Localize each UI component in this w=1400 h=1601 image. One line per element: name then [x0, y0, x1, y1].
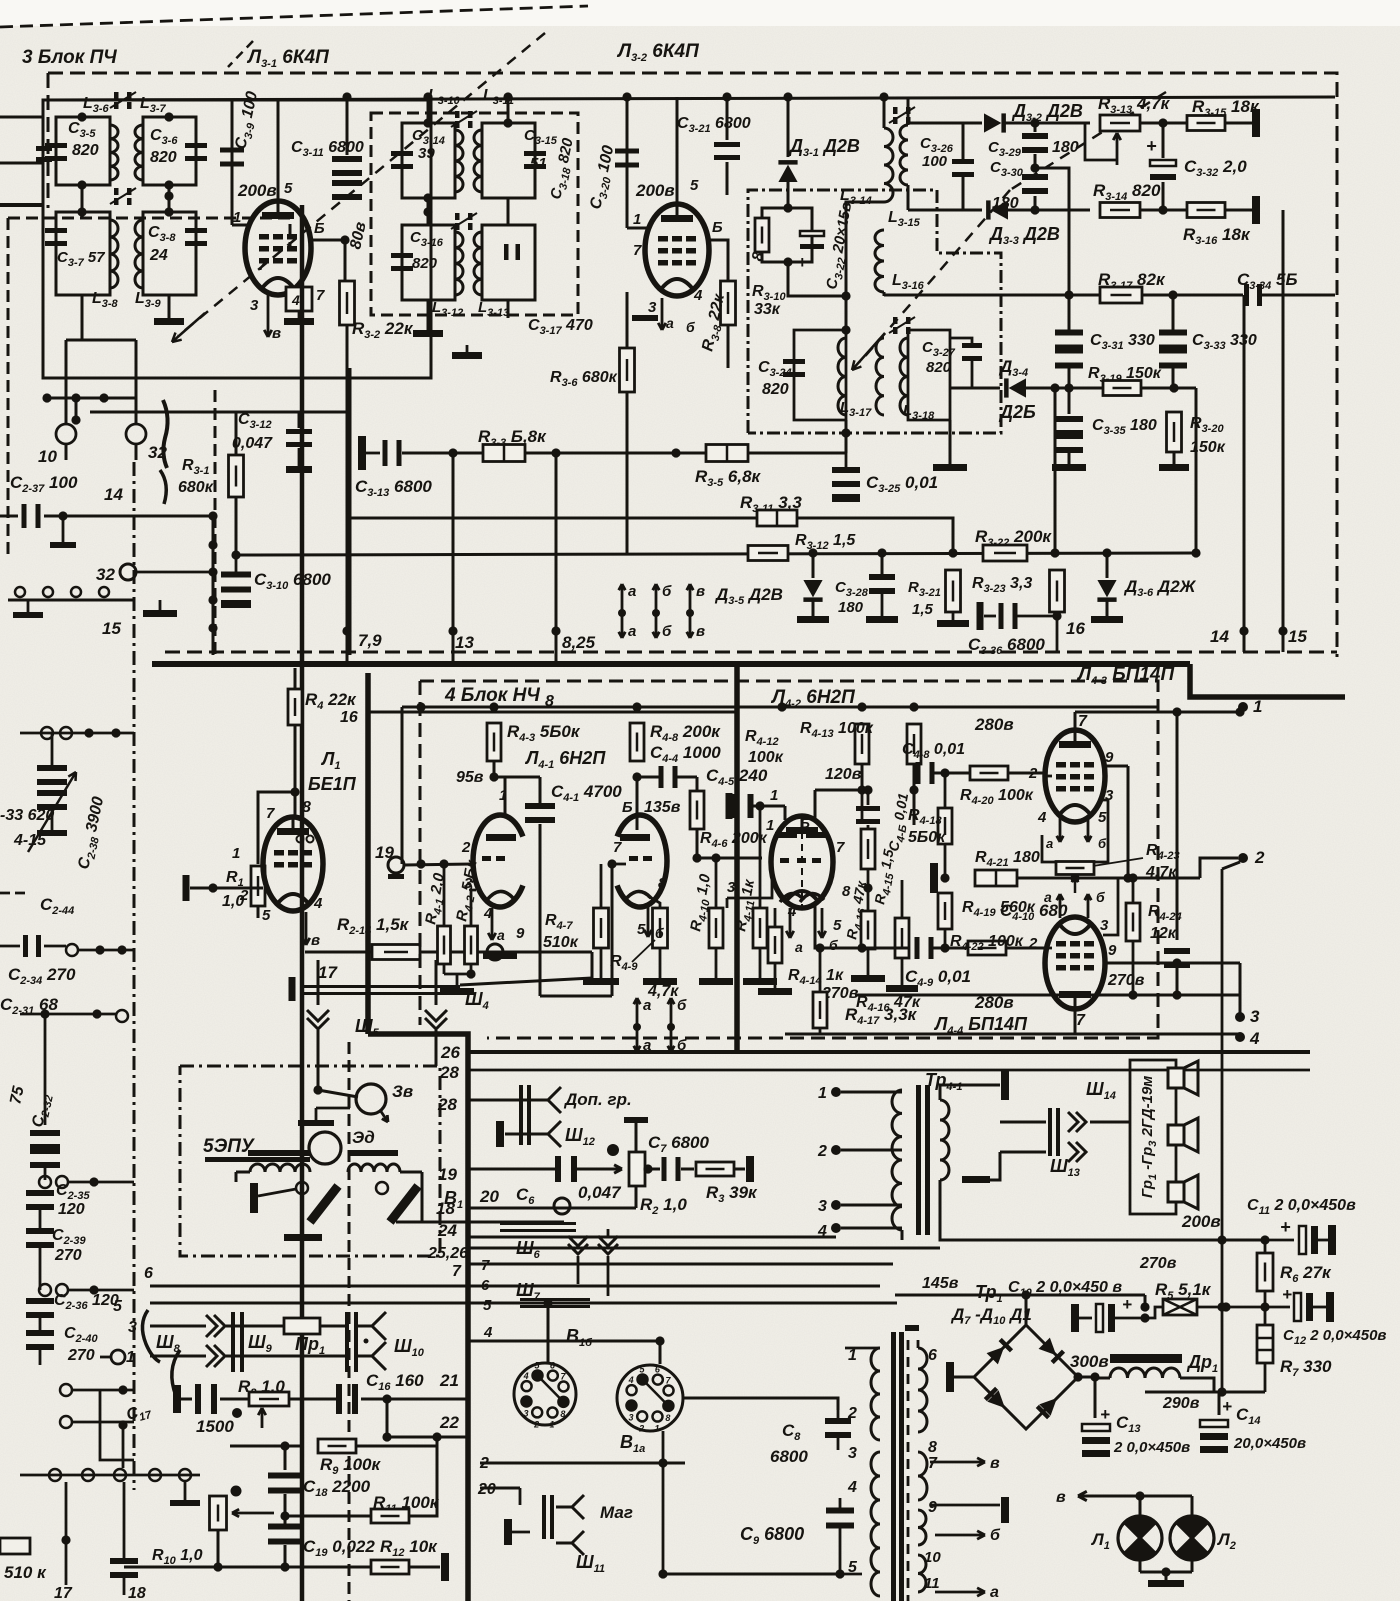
capacitor C2-39 270 [26, 1228, 54, 1234]
bridge right output [1073, 1372, 1082, 1381]
svg-text:а: а [643, 997, 651, 1014]
wire between box2 tanks [427, 198, 430, 225]
svg-text:Д3-5 Д2В: Д3-5 Д2В [714, 585, 783, 607]
svg-text:+: + [1122, 1295, 1132, 1314]
svg-text:3: 3 [648, 299, 657, 316]
svg-text:2: 2 [817, 1143, 827, 1160]
heavy enclosure preamp left vertical [365, 673, 371, 1034]
svg-text:25,26: 25,26 [427, 1245, 468, 1262]
svg-text:4: 4 [693, 287, 703, 304]
resistor R4-24 12k [1126, 903, 1140, 941]
resistor R9 100k [318, 1439, 356, 1453]
5EPU dash-dot enclosure [180, 1066, 440, 1256]
tank circuit C3-7 / L3-8 [56, 212, 110, 295]
bridge left terminal [946, 1362, 954, 1392]
transformer Tr4-1 primary [892, 1090, 902, 1230]
resistors R4-16 47k pair [861, 829, 875, 869]
connector Mag [542, 1495, 546, 1539]
svg-text:б: б [990, 1527, 1001, 1544]
svg-text:1: 1 [848, 1347, 857, 1364]
svg-text:820: 820 [150, 149, 177, 166]
speaker 2 [1168, 1125, 1184, 1145]
svg-text:4: 4 [291, 292, 300, 308]
svg-text:5: 5 [284, 180, 293, 197]
heavy elbow to bottom assembly [368, 1034, 468, 1601]
grid return left of L4-2 [727, 880, 772, 898]
block4 supply rail [402, 706, 1158, 709]
wire R4-12 R4-13 to rail [857, 785, 866, 794]
svg-text:10: 10 [924, 1549, 941, 1566]
Tr1 winding 10 11 [918, 1555, 926, 1592]
svg-text:в: в [696, 583, 705, 600]
wire lamps top [1130, 1495, 1192, 1498]
volume pot R2 1.0 [574, 1168, 622, 1171]
svg-text:3: 3 [727, 879, 736, 896]
tube L4-4 6P14P inverted [1045, 917, 1105, 1009]
svg-text:820: 820 [762, 381, 789, 398]
svg-text:51: 51 [530, 155, 547, 172]
svg-text:1: 1 [818, 1085, 827, 1102]
tube L3-2 6K4P [645, 204, 709, 296]
diode D3-3 D2V [908, 209, 982, 212]
svg-text:С4-10 680: С4-10 680 [1000, 901, 1068, 923]
wire top rail of block 3 [43, 97, 1335, 100]
wire dashed pointer to L3-1 coils [178, 33, 545, 336]
ground under box2 left [427, 300, 430, 330]
svg-text:9: 9 [516, 925, 525, 942]
svg-text:33к: 33к [754, 301, 781, 318]
tank circuit C3-8 / L3-9 [143, 212, 196, 295]
svg-text:+: + [1146, 136, 1157, 156]
svg-text:200в: 200в [635, 181, 675, 200]
terminal 10 [56, 424, 76, 444]
svg-text:3: 3 [1250, 1007, 1260, 1026]
svg-text:С7 6800: С7 6800 [648, 1133, 710, 1155]
capacitor C3-35 180 [1068, 388, 1071, 414]
left dashed vertical x349 [348, 1042, 351, 1601]
svg-text:R3 39к: R3 39к [706, 1183, 758, 1205]
svg-text:Зв: Зв [392, 1082, 413, 1101]
connector Dop.gr [519, 1085, 523, 1145]
transformer Tr4-1 secondary [940, 1100, 949, 1180]
svg-text:120: 120 [58, 1201, 85, 1218]
capacitor C18 2200 [284, 1446, 287, 1470]
terminal 15 [1282, 210, 1285, 652]
svg-text:1: 1 [232, 845, 240, 862]
svg-text:10: 10 [38, 447, 57, 466]
tube L4-3 6P14P [1045, 730, 1105, 822]
resistor R4-13 100k [907, 724, 921, 764]
inner dashed detector box [748, 190, 1001, 433]
capacitor C3-25 0.01 [845, 433, 848, 467]
svg-text:5ЭПУ: 5ЭПУ [203, 1136, 256, 1157]
bridge diode 1 [987, 1338, 1014, 1365]
svg-text:Доп. гр.: Доп. гр. [563, 1090, 632, 1109]
capacitor C14 [1218, 1392, 1221, 1415]
svg-text:+: + [1282, 1285, 1292, 1304]
switch V1 terminal bar [250, 1183, 258, 1213]
svg-text:Д3-6 Д2Ж: Д3-6 Д2Ж [1123, 577, 1197, 599]
capacitor C3-20 100 [626, 97, 629, 228]
svg-text:7: 7 [1076, 1012, 1086, 1029]
svg-text:б: б [1098, 836, 1107, 851]
svg-text:200в: 200в [1181, 1212, 1221, 1231]
cathode ground of first half [483, 952, 517, 959]
switch V1 blades [310, 1186, 338, 1222]
svg-text:С3-36 6800: С3-36 6800 [968, 635, 1045, 657]
svg-text:11: 11 [924, 1575, 940, 1592]
svg-text:в: в [272, 325, 281, 342]
svg-text:С3-10 6800: С3-10 6800 [254, 570, 331, 592]
cathode lead L4-1b [648, 896, 660, 908]
L4-4 pin9 wire [1103, 962, 1240, 965]
plate wires L4-2 [815, 789, 862, 792]
svg-text:6: 6 [928, 1347, 937, 1364]
svg-text:7: 7 [452, 1263, 462, 1280]
svg-text:280в: 280в [974, 715, 1014, 734]
left dashed vertical x215 [214, 390, 217, 655]
svg-text:820: 820 [412, 255, 438, 272]
svg-text:32: 32 [96, 565, 115, 584]
capacitor C3-9 100 [231, 100, 234, 225]
ground under pin4 box [298, 311, 301, 318]
capacitor C8 [825, 1418, 851, 1424]
svg-text:Л4-4 БП14П: Л4-4 БП14П [933, 1014, 1028, 1037]
Tr1 primary winding lower [871, 1452, 880, 1596]
wire from detector loop to lower tank [788, 262, 846, 296]
svg-text:270в: 270в [1107, 972, 1145, 989]
svg-text:R4-3 5Б0к: R4-3 5Б0к [507, 722, 581, 744]
svg-text:R2 1,0: R2 1,0 [640, 1195, 687, 1217]
diode D3-4 D2B [950, 387, 1000, 390]
svg-text:4: 4 [787, 903, 797, 920]
svg-text:+: + [797, 253, 807, 272]
svg-text:а: а [628, 623, 636, 640]
resistor R6 27k [1257, 1253, 1273, 1291]
svg-text:4: 4 [523, 1371, 529, 1381]
svg-text:7: 7 [258, 257, 267, 274]
wire dashed pointer to L3-2 coils [1010, 92, 1166, 190]
svg-text:а: а [795, 939, 803, 955]
resistor R4-8 200k [630, 723, 644, 761]
svg-text:14: 14 [104, 485, 123, 504]
wire FM det line y295 [884, 294, 1243, 297]
fuse Pr1 [284, 1318, 320, 1334]
svg-text:R3-5 6,8к: R3-5 6,8к [695, 467, 762, 489]
resistor R3-20 150k [1167, 412, 1182, 452]
capacitor C2-34 270 [0, 945, 20, 948]
L4-4 pin3 wire [1103, 878, 1118, 935]
svg-text:С4-5 240: С4-5 240 [706, 766, 768, 788]
svg-text:в: в [1056, 1489, 1066, 1506]
wire grid to tube L3-1 [232, 224, 247, 227]
abc legend block4 [636, 998, 639, 1026]
svg-text:8: 8 [928, 1439, 937, 1456]
wire cathode to R4-2 [471, 890, 476, 926]
capacitor C7 [645, 1168, 660, 1171]
svg-text:3: 3 [1105, 787, 1114, 804]
connector Sh9 bars [226, 1325, 346, 1328]
svg-text:17: 17 [318, 963, 338, 982]
ground bar under L3-2 [632, 315, 658, 321]
svg-text:С19 0,022: С19 0,022 [303, 1537, 375, 1559]
svg-text:R7 330: R7 330 [1280, 1357, 1332, 1379]
svg-text:4: 4 [313, 895, 323, 912]
tube L3-1 6K4P [245, 201, 311, 295]
resistor 510k bottom left [0, 1538, 30, 1554]
tank circuit C3-5 / L3-6 [56, 117, 110, 185]
connector Sh13 [1068, 1142, 1078, 1162]
Tr1 primary winding upper [871, 1348, 880, 1440]
terminal bar left of C17 [173, 1385, 181, 1413]
switch V1 contacts [296, 1182, 308, 1194]
svg-text:С9 6800: С9 6800 [740, 1524, 804, 1547]
svg-text:26: 26 [440, 1043, 460, 1062]
switch output wire to Sh6 [396, 1221, 564, 1224]
svg-text:680к: 680к [178, 479, 214, 496]
svg-text:8: 8 [560, 1409, 565, 1419]
ground in EPU [298, 1120, 334, 1126]
tube L4-2 6N2P [771, 816, 833, 908]
wire lamps bottom [1139, 1560, 1142, 1572]
block 2 heavy right border [300, 205, 305, 1601]
svg-text:1: 1 [766, 817, 774, 834]
svg-text:С4-9 0,01: С4-9 0,01 [905, 967, 971, 989]
svg-text:С2-37 100: С2-37 100 [10, 473, 78, 495]
tank C3-17 / L3-13 [482, 225, 535, 300]
svg-text:5: 5 [483, 1297, 492, 1314]
svg-text:2: 2 [239, 887, 249, 904]
scan smudge strokes [163, 400, 168, 468]
wire discriminator bottom line y388 [845, 420, 848, 433]
svg-text:R3-2 22к: R3-2 22к [352, 319, 414, 341]
svg-text:1: 1 [549, 1420, 554, 1430]
wire dashed diagonal to L3-1 label [228, 41, 253, 67]
left strip dashed border [8, 218, 290, 250]
svg-text:Л3-2 6К4П: Л3-2 6К4П [616, 41, 699, 64]
wire left stubs into box1 [0, 116, 43, 119]
vertical from B1a to C9 line [662, 1463, 665, 1574]
svg-text:R3-13 4,7к: R3-13 4,7к [1098, 94, 1171, 116]
svg-text:2: 2 [461, 839, 471, 856]
pot R2 top terminal [624, 1117, 648, 1123]
ground under L3-18 tank [949, 420, 952, 464]
svg-text:2 0,0×450в: 2 0,0×450в [1113, 1439, 1190, 1456]
svg-text:3: 3 [523, 1408, 528, 1418]
left bottom pins [60, 1384, 72, 1396]
svg-text:С2-34 270: С2-34 270 [8, 965, 76, 987]
wire C9 bottom line [663, 1573, 840, 1576]
svg-text:12к: 12к [1150, 925, 1177, 942]
svg-text:3: 3 [250, 297, 259, 314]
svg-text:Л3-1 6К4П: Л3-1 6К4П [246, 47, 329, 70]
svg-text:145в: 145в [922, 1275, 959, 1292]
resistor R4-22 100k [968, 941, 1006, 955]
svg-text:180: 180 [838, 599, 864, 616]
wire preamp supply y712 [368, 711, 737, 714]
wire grid pin1 to L3-2 [627, 227, 647, 230]
tuned core mark between L3-6 L3-7 [114, 92, 119, 99]
grid wire left of L1 [190, 887, 263, 890]
tank C3-14 / L3-10 [402, 123, 455, 198]
capacitor C3-21 [726, 97, 729, 140]
wire terminals row [47, 397, 136, 400]
svg-text:7: 7 [316, 287, 325, 304]
bus 26 line [470, 1050, 1310, 1054]
terminal circle C2-40 [111, 1350, 125, 1364]
bus 28 line [470, 1069, 1310, 1072]
svg-text:1,5: 1,5 [912, 601, 934, 618]
svg-text:а: а [666, 315, 674, 331]
capacitor C13 [1094, 1377, 1097, 1418]
svg-text:16: 16 [340, 709, 358, 726]
svg-text:7: 7 [266, 805, 275, 822]
wire box2 tank tops to rail [427, 97, 430, 123]
svg-text:100: 100 [922, 153, 948, 170]
ground under box2 right [507, 300, 510, 318]
resistor R4-6 200k [696, 777, 699, 793]
capacitor C3-32 2.0 electrolytic [1162, 123, 1165, 158]
terminal 1 [1238, 702, 1248, 712]
resistor R7 330 wirewound [1264, 1291, 1267, 1325]
svg-text:24: 24 [149, 247, 168, 264]
svg-text:Д3-1 Д2В: Д3-1 Д2В [788, 136, 860, 159]
tuned core mark box2 upper [455, 111, 460, 118]
switch contacts row left strip [15, 587, 25, 597]
cathode loop with R4-23 pot [1042, 800, 1108, 862]
svg-text:R12 10к: R12 10к [380, 1537, 438, 1559]
wire R9 line [256, 1445, 302, 1448]
svg-text:820: 820 [72, 142, 99, 159]
coil L3-15 [900, 125, 908, 185]
coil L3-16 [875, 230, 884, 292]
left bottom caps and switches [49, 1469, 61, 1481]
left strip mid cluster C2-33 [41, 727, 53, 739]
svg-text:6800: 6800 [770, 1447, 808, 1466]
svg-text:270: 270 [67, 1347, 95, 1364]
left strip lower cluster C2-32 75 [40, 1009, 49, 1018]
terminal bar after R3-15 [1252, 109, 1260, 137]
pickup Zv circle [313, 1085, 322, 1094]
svg-text:Б: Б [314, 220, 325, 237]
svg-text:Эд: Эд [352, 1128, 375, 1147]
capacitor C2-35 120 [39, 1176, 51, 1188]
svg-text:в: в [990, 1455, 1000, 1472]
resistor R4-21 180 line [930, 863, 938, 893]
bus 19 line [468, 1168, 558, 1171]
capacitor C3-34 56 [1244, 284, 1249, 306]
svg-text:R4 22к: R4 22к [305, 690, 357, 712]
svg-text:R3-14 820: R3-14 820 [1093, 181, 1161, 203]
Tr1 secondary 6.3v windings [918, 1452, 927, 1500]
capacitor C3-36 6800 [977, 602, 984, 630]
svg-text:5: 5 [833, 917, 842, 934]
svg-text:БЕ1П: БЕ1П [308, 774, 357, 794]
svg-text:28: 28 [439, 1063, 459, 1082]
speaker box [1130, 1060, 1176, 1214]
svg-text:2: 2 [533, 1419, 539, 1429]
svg-text:24: 24 [437, 1221, 457, 1240]
lamp L1 [1118, 1516, 1162, 1560]
svg-text:Д3-3 Д2В: Д3-3 Д2В [988, 224, 1060, 247]
svg-text:5: 5 [690, 177, 699, 194]
svg-text:2: 2 [638, 1423, 644, 1433]
svg-text:13: 13 [455, 633, 474, 652]
resistor R4-20 100k [970, 766, 1008, 780]
Tr4-1 secondary wires [940, 1085, 1000, 1100]
svg-text:б: б [662, 623, 672, 640]
wire from socket B1a right [683, 1398, 838, 1410]
svg-text:1: 1 [126, 1349, 135, 1366]
resistor R3-16 18k [1187, 203, 1225, 218]
svg-text:18: 18 [436, 1199, 455, 1218]
svg-text:2: 2 [1254, 848, 1265, 867]
terminal 32 [126, 424, 146, 444]
svg-text:R2-14 1,5к: R2-14 1,5к [337, 915, 410, 937]
svg-text:1: 1 [633, 211, 641, 228]
svg-text:4: 4 [483, 1324, 493, 1341]
svg-text:8: 8 [302, 799, 311, 816]
svg-text:1: 1 [654, 1424, 659, 1434]
svg-text:15: 15 [102, 619, 121, 638]
svg-text:С18 2200: С18 2200 [303, 1477, 371, 1499]
wire line y453 [402, 452, 846, 455]
svg-text:б: б [655, 925, 664, 941]
abc arrows legend block3 [621, 584, 624, 612]
wire lower plate line of L4-2 to C4-9 [815, 905, 862, 948]
svg-text:R4-17 3,3к: R4-17 3,3к [845, 1005, 918, 1027]
svg-text:С3-25 0,01: С3-25 0,01 [866, 473, 938, 495]
svg-text:Л4-3 БП14П: Л4-3 БП14П [1076, 664, 1175, 687]
svg-text:С4-1 4700: С4-1 4700 [551, 782, 622, 804]
IF transformer box2 dashed enclosure [371, 113, 578, 315]
svg-text:5: 5 [262, 907, 271, 924]
svg-text:R4-8 200к: R4-8 200к [650, 722, 721, 744]
capacitor C3-31 330 [1055, 330, 1083, 336]
connector Sh4 shield cable [317, 960, 320, 1005]
svg-text:Маг: Маг [600, 1503, 633, 1522]
svg-text:8: 8 [658, 875, 667, 892]
tank C3-15 / L3-11 [482, 123, 535, 198]
svg-text:7,9: 7,9 [358, 631, 382, 650]
svg-text:3: 3 [818, 1198, 827, 1215]
svg-text:5: 5 [1098, 809, 1107, 826]
smudge stroke near Sh8 [142, 1310, 160, 1362]
svg-text:280в: 280в [974, 993, 1014, 1012]
svg-text:5: 5 [637, 921, 646, 938]
svg-text:7: 7 [1078, 713, 1088, 730]
svg-text:15: 15 [1288, 627, 1307, 646]
svg-text:0,047: 0,047 [232, 435, 273, 452]
capacitor C3-13 6800 [358, 436, 366, 470]
terminal 14 [1243, 295, 1246, 652]
choke Dr1 [1110, 1368, 1180, 1378]
bridge diode 3 [984, 1387, 1011, 1414]
long vertical from terminal 2 [1221, 869, 1224, 1392]
svg-text:С3-13 6800: С3-13 6800 [355, 477, 432, 499]
svg-text:120в: 120в [825, 766, 862, 783]
svg-text:а: а [628, 583, 636, 600]
motor Ed circle [309, 1132, 341, 1164]
resistor R3-2 22k [344, 240, 347, 282]
svg-text:95в: 95в [456, 769, 484, 786]
wire 200v line y1237 [1130, 1239, 1265, 1242]
left inner dash-dot vertical [133, 462, 136, 1490]
svg-text:270в: 270в [1139, 1255, 1177, 1272]
resistor R4-12 100k [855, 724, 869, 764]
terminal circle on 17 line [487, 944, 503, 960]
transformer Tr4-1 core [916, 1085, 921, 1235]
